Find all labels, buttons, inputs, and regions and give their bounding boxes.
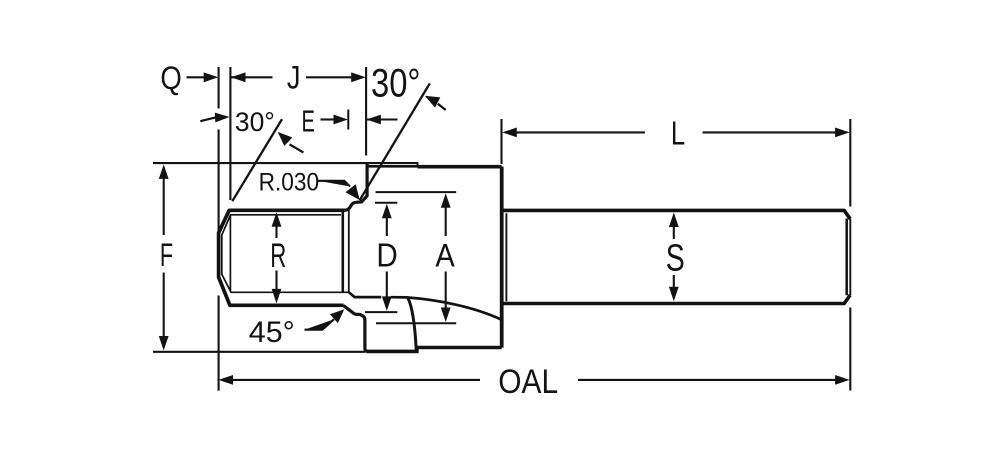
S dimension line and arrows <box>669 213 679 302</box>
L/OAL right extension line <box>849 119 851 391</box>
D bottom extension line <box>365 311 397 313</box>
svg-text:Q: Q <box>160 60 181 96</box>
svg-text:E: E <box>302 104 315 139</box>
F dimension line and arrows <box>159 164 169 350</box>
lower 30-deg chamfer diagonal <box>232 119 282 201</box>
body bottom edge with step <box>367 348 502 352</box>
A top extension line <box>376 191 457 193</box>
flute face line <box>408 297 417 349</box>
flute bottom edge line merging into sweep curve <box>349 292 381 297</box>
L dimension line and arrows <box>502 128 849 138</box>
shank junction relief line <box>505 213 507 301</box>
shank end face line <box>849 219 851 295</box>
svg-text:D: D <box>376 237 397 274</box>
svg-text:45°: 45° <box>249 316 295 349</box>
A dimension line and arrows <box>441 193 451 322</box>
thread runout groove lines at pilot end <box>341 211 344 292</box>
A bottom extension line <box>376 322 456 324</box>
pilot thread minor-diameter lines <box>222 215 349 292</box>
lower 30-deg pointer arrow <box>200 113 229 123</box>
svg-text:A: A <box>435 238 455 274</box>
svg-text:30°: 30° <box>371 61 421 105</box>
extension line at body left edge (J right / E right) <box>365 67 367 156</box>
svg-text:S: S <box>666 238 685 280</box>
svg-text:J: J <box>287 59 301 95</box>
extension line for E left <box>347 110 349 130</box>
Q dimension arrows and line <box>187 72 273 82</box>
pilot thread outer contour <box>219 210 345 305</box>
upper 30-deg leader arrow <box>425 96 446 110</box>
body top edge reduced diameter <box>368 165 418 168</box>
body right edge <box>500 167 504 348</box>
E dimension arrows <box>321 115 398 125</box>
J dimension line right part <box>306 72 366 82</box>
OAL dimension line and arrows <box>219 375 850 385</box>
shank bottom edge <box>502 295 851 304</box>
R dimension line and arrows <box>272 212 282 303</box>
D dimension line and arrows <box>382 204 392 311</box>
shank top edge <box>502 210 851 219</box>
svg-text:R: R <box>270 237 286 275</box>
upper 30-deg chamfer diagonal <box>360 83 430 200</box>
svg-text:L: L <box>671 115 685 152</box>
R.030 leader line and arrow <box>318 181 360 200</box>
extension line at pilot nose (Q left / OAL left) <box>218 67 220 391</box>
svg-text:30°: 30° <box>235 107 275 137</box>
cutter body top edge (full diameter, thin) with margin step <box>153 162 418 164</box>
shank end chamfer circle line <box>845 219 848 296</box>
extension line at thread chamfer (Q right / J left) <box>229 67 231 200</box>
45-deg chamfer, relief groove and bottom step-down <box>343 306 367 352</box>
45-deg leader line and arrow <box>305 309 345 329</box>
svg-text:OAL: OAL <box>498 363 558 401</box>
svg-text:F: F <box>160 237 173 273</box>
R.030 fillet rise and 30-deg step chamfer to body <box>345 164 367 210</box>
lower 30-deg leader arrow <box>278 132 304 153</box>
L left extension line <box>500 119 502 164</box>
svg-text:R.030: R.030 <box>259 169 320 197</box>
F bottom extension line <box>153 351 365 353</box>
D top extension line <box>375 202 397 204</box>
